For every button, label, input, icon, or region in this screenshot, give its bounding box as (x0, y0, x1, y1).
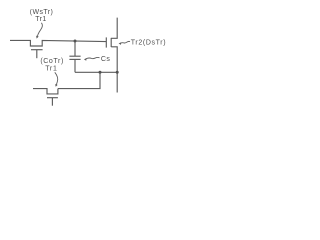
wire: branch from node down to lower transistor (58, 72, 100, 88)
wire: middle node line (75, 71, 117, 73)
transistor Tr1 (CoTr) gate stub (51, 98, 53, 106)
capacitor Cs bottom plate (69, 58, 80, 60)
wire: lower line with Tr1 source-drain dip (33, 89, 58, 94)
svg-text:Tr1: Tr1 (45, 65, 57, 72)
transistor Tr1 (CoTr) gate bar (47, 97, 58, 99)
transistor Tr2 (DsTr) channel (110, 38, 112, 47)
leader arrow to Tr1 (WsTr) (37, 23, 42, 37)
capacitor Cs bottom lead (74, 59, 76, 72)
leader arrow to Tr1 (CoTr) (55, 72, 58, 85)
transistor Tr2 (DsTr) gate bar (105, 37, 107, 47)
node: junction dot middle wire / branch (99, 71, 102, 74)
transistor Tr2 (DsTr) source lead (111, 47, 117, 93)
svg-text:Tr2(DsTr): Tr2(DsTr) (131, 40, 166, 47)
svg-text:Tr1: Tr1 (35, 16, 46, 23)
transistor Tr1 (WsTr) gate bar (31, 49, 43, 51)
transistor Tr2 (DsTr) drain lead (111, 18, 117, 39)
capacitor Cs top plate (69, 55, 80, 57)
leader arrow to Tr2 (120, 41, 130, 43)
leader arrow to Cs (86, 57, 100, 58)
svg-text:Cs: Cs (101, 56, 110, 63)
svg-text:(CoTr): (CoTr) (40, 58, 64, 65)
node: junction dot middle wire / Tr2 source (116, 71, 119, 74)
transistor Tr1 (WsTr) gate stub (36, 50, 38, 59)
capacitor Cs top lead (74, 41, 76, 56)
wire: top signal line with Tr1 source-drain dip (10, 40, 106, 46)
node: junction dot top wire / Cs top (74, 40, 77, 43)
